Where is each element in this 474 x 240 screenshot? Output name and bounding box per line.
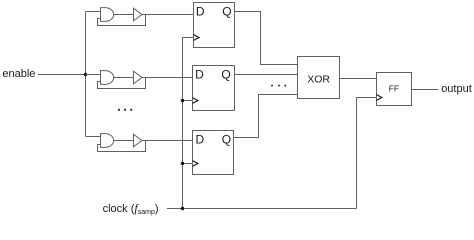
wire feedback loop row 2 [98,78,146,89]
node clock junction FF2 [181,99,184,102]
wire branch to AND2 [86,74,101,76]
wire enable to branch [38,74,86,76]
wire feedback loop row 3 [98,141,146,152]
wire clock to FF1 [183,37,194,39]
wire XOR out to FF [340,78,377,80]
clock pin FF [377,95,383,101]
wire branch to AND3 [86,136,101,138]
wire clock to FF2 [183,100,193,102]
wire FF to output [412,89,439,91]
svg-text:D: D [195,68,204,82]
buffer B3 [134,134,142,147]
wire FF2 Q to XOR [235,74,298,76]
wire FF3 Q to XOR [234,95,298,138]
svg-text:D: D [196,5,205,19]
wire clock to output FF [357,98,377,209]
svg-text:XOR: XOR [307,73,330,85]
clock pin FF2 [193,98,199,104]
clock pin FF1 [194,35,200,41]
svg-text:enable: enable [2,68,35,80]
svg-text:Q: Q [222,5,231,19]
node clock junction FF3 [181,162,184,165]
wire B1 out to FF1 D [142,14,194,16]
wire A2 out to buffer B2 [114,77,134,79]
wire clock rail bottom [167,208,357,210]
flip-flop FF output box [377,73,412,106]
wire FF1 Q to XOR [235,12,298,65]
clock pin FF3 [193,161,199,167]
and-gate A3 (ring osc row 3) [101,134,114,148]
node ellipsis right [271,85,286,87]
svg-text:Q: Q [222,132,231,146]
flip-flop FF1 box [194,3,235,48]
wire enable branch vertical [85,12,87,137]
flip-flop FF2 box [193,66,235,111]
svg-text:FF: FF [389,83,399,93]
svg-text:output: output [441,83,472,95]
xor gate box U1 [298,57,340,99]
svg-text:Q: Q [221,68,230,82]
wire A3 out to buffer B3 [114,140,134,142]
buffer B1 [134,8,142,21]
wire branch to AND1 [86,11,101,13]
wire B3 out to FF3 D [142,140,193,142]
and-gate A2 (ring osc row 2) [101,71,114,85]
node clock rail junction [181,207,184,210]
and-gate A1 (ring osc row 1) [101,8,114,22]
svg-text:D: D [196,132,205,146]
wire A1 out to buffer B1 [114,14,134,16]
wire feedback loop row 1 [98,15,146,26]
wire clock rail vertical [182,38,184,209]
flip-flop FF3 box [193,131,234,175]
wire B2 out to FF2 D [142,77,193,79]
buffer B2 [134,71,142,84]
node ellipsis left [118,109,132,111]
wire clock to FF3 [183,163,193,165]
node enable junction dot [84,73,87,76]
